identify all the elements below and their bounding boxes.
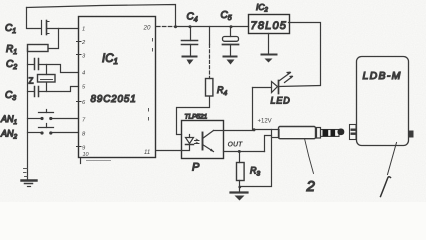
ground (C5): [224, 57, 237, 65]
opto internal LED: [182, 135, 200, 151]
module right tab: [409, 131, 414, 138]
pushbutton AN1: [0, 110, 79, 127]
callout label 1: [381, 143, 397, 197]
svg-text:10: 10: [83, 152, 90, 158]
wire: R4 to optocoupler anode: [177, 97, 210, 135]
svg-text:OUT: OUT: [228, 142, 244, 149]
pin 10 GND stub: [81, 152, 111, 164]
svg-text:11: 11: [144, 150, 150, 156]
jack socket on module: [350, 125, 357, 140]
wire: opto collector to +12V node: [214, 130, 255, 132]
op-amp U1: microcontroller IC1 89C2051 box: [79, 17, 156, 158]
opto phototransistor: [203, 131, 214, 152]
svg-text:P: P: [192, 162, 200, 174]
svg-text:LDB-M: LDB-M: [363, 70, 402, 82]
callout label 2: [305, 139, 316, 196]
svg-text:LED: LED: [271, 95, 291, 105]
capacitor C5: [221, 10, 239, 57]
connector 2: DC power plug: [272, 127, 345, 139]
pin ticks and numbers, IC1 left side: [77, 27, 87, 152]
resistor R3: [237, 150, 261, 181]
wire: IC1 pin 11 to opto input cathode: [157, 150, 182, 152]
capacitor C4: [182, 12, 198, 56]
wire: LED anode to +12V node: [253, 88, 272, 132]
resistor R1: [6, 29, 59, 57]
capacitor C1: [5, 8, 79, 36]
svg-text:+12V: +12V: [258, 119, 272, 125]
svg-text:20: 20: [143, 25, 151, 32]
wire: IC2 input from LED cathode: [289, 23, 321, 85]
crystal Z: [29, 65, 56, 92]
ground (R3): [231, 181, 248, 201]
resistor R4: [206, 27, 228, 98]
svg-text:1: 1: [82, 27, 85, 33]
svg-text:Z: Z: [29, 77, 34, 86]
capacitor C2: [6, 59, 79, 73]
wire: +12V node to plug sleeve: [255, 129, 272, 131]
wire: OUT to plug tip contact: [265, 136, 272, 152]
svg-text:4: 4: [82, 71, 85, 77]
svg-text:TLP521: TLP521: [185, 114, 208, 121]
wire: opto emitter OUT: [224, 142, 265, 152]
ground (C4): [183, 57, 197, 65]
pin 20 label and right side ticks: [143, 25, 153, 157]
wire: ground rail left: [27, 49, 29, 180]
pushbutton AN2: [0, 124, 79, 141]
svg-text:89C2051: 89C2051: [91, 94, 137, 105]
ground (IC2): [262, 34, 277, 63]
wire: plug sleeve to ground return: [240, 138, 272, 187]
module LDB-M: [357, 57, 409, 146]
LED D1 power indicator: [253, 72, 321, 106]
optocoupler P TLP521: [182, 114, 224, 174]
svg-text:78L05: 78L05: [251, 20, 288, 32]
wire: +5V rail from pin 20: [157, 25, 249, 28]
wire: RST top wire from C1 to VCC rail: [27, 5, 176, 27]
voltage regulator IC2 78L05: [249, 2, 290, 34]
ground (left rail): [22, 169, 37, 187]
svg-text:2: 2: [306, 178, 316, 195]
capacitor C3: [5, 87, 79, 103]
